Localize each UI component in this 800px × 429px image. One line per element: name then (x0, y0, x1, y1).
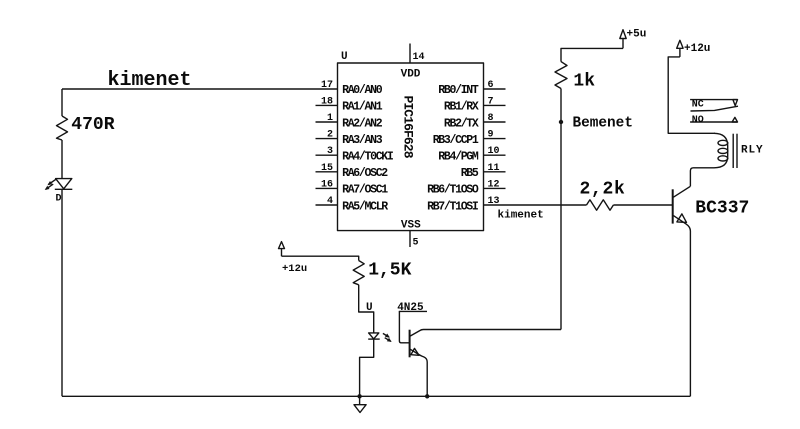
wire pin 13 to 2,2k (506, 204, 587, 206)
svg-text:RB7/T1OSI: RB7/T1OSI (427, 200, 479, 213)
pin 17 RA0/AN0 (321, 80, 383, 97)
svg-text:11: 11 (488, 163, 500, 174)
pin 12 RB6/T1OSO (427, 179, 505, 196)
pin 8 RB2/TX (444, 113, 506, 130)
svg-text:4: 4 (327, 196, 333, 207)
resistor 1k (555, 62, 595, 92)
svg-text:RB2/TX: RB2/TX (444, 117, 479, 130)
wire opto LED cathode down (360, 339, 374, 396)
wire Bemenet net down (560, 122, 562, 330)
relay RLY coil (690, 133, 763, 186)
svg-text:RA1/AN1: RA1/AN1 (342, 101, 383, 114)
svg-text:14: 14 (413, 52, 425, 63)
svg-text:2: 2 (327, 130, 333, 141)
svg-text:RA5/MCLR: RA5/MCLR (342, 200, 388, 213)
relay contact NO (690, 115, 737, 126)
wire +12v to relay coil (668, 57, 715, 133)
svg-text:U: U (341, 51, 348, 63)
svg-text:RA0/AN0: RA0/AN0 (342, 84, 383, 97)
pin 15 RA6/OSC2 (316, 163, 389, 180)
wire 1k to Bemenet junction (560, 89, 562, 123)
pin 5 VSS bottom stub (401, 220, 421, 249)
power +12v symbol left (279, 242, 308, 275)
optocoupler U 4N25 (366, 302, 427, 396)
svg-text:BC337: BC337 (695, 199, 749, 219)
svg-text:13: 13 (488, 196, 500, 207)
svg-text:2,2k: 2,2k (580, 180, 626, 200)
pin 13 RB7/T1OSI (427, 196, 505, 213)
wire +5v to 1k (561, 48, 623, 61)
pin 9 RB3/CCP1 (433, 130, 506, 147)
wire bottom ground rail (62, 395, 690, 397)
pin 6 RB0/INT (438, 80, 505, 97)
ground symbol (354, 396, 366, 412)
svg-text:+12u: +12u (282, 263, 307, 275)
resistor 2,2k (580, 180, 626, 211)
pin 1 RA2/AN2 (316, 113, 383, 130)
LED D (45, 179, 73, 205)
svg-text:7: 7 (488, 96, 494, 107)
svg-text:9: 9 (488, 130, 494, 141)
svg-text:+12u: +12u (684, 43, 710, 55)
svg-text:5: 5 (413, 238, 419, 249)
power +12v symbol right (677, 40, 711, 57)
pin 11 RB5 (461, 163, 506, 180)
wire Bemenet net to optocoupler collector (424, 329, 562, 331)
svg-text:RB1/RX: RB1/RX (444, 101, 479, 114)
wire 1,5K to opto LED anode (359, 285, 374, 333)
svg-text:RB4/PGM: RB4/PGM (438, 151, 479, 164)
svg-text:RA7/OSC1: RA7/OSC1 (342, 184, 388, 197)
relay contact lever (691, 106, 739, 111)
svg-text:15: 15 (321, 163, 333, 174)
svg-text:VDD: VDD (401, 68, 421, 80)
svg-text:NC: NC (692, 100, 704, 111)
transistor Q BC337 (673, 186, 750, 396)
resistor 1,5K (353, 261, 411, 285)
svg-text:6: 6 (488, 80, 494, 91)
IC U PIC16F628 body (338, 63, 484, 231)
svg-text:3: 3 (327, 146, 333, 157)
svg-text:18: 18 (321, 96, 333, 107)
svg-text:470R: 470R (71, 115, 114, 135)
svg-text:PIC16F628: PIC16F628 (400, 96, 415, 159)
svg-text:RB3/CCP1: RB3/CCP1 (433, 134, 479, 147)
wire LED D cathode down (61, 189, 63, 396)
wire kimenet down to R 470R (61, 89, 63, 116)
pin 14 VDD top stub (401, 44, 425, 81)
pin 3 RA4/T0CKI (316, 146, 394, 163)
svg-text:+5u: +5u (627, 29, 647, 41)
svg-text:RLY: RLY (741, 145, 764, 157)
pin 7 RB1/RX (444, 96, 506, 113)
svg-text:Bemenet: Bemenet (573, 116, 633, 132)
relay contact NC (690, 100, 737, 111)
svg-text:RA4/T0CKI: RA4/T0CKI (342, 151, 394, 164)
svg-text:16: 16 (321, 179, 333, 190)
wire +12v to 1,5K (282, 256, 359, 260)
svg-text:RB0/INT: RB0/INT (438, 84, 479, 97)
pin 18 RA1/AN1 (316, 96, 383, 113)
svg-text:12: 12 (488, 179, 500, 190)
svg-text:17: 17 (321, 80, 333, 91)
pin 4 RA5/MCLR (316, 196, 389, 213)
svg-text:NO: NO (692, 115, 704, 126)
junction opto cathode to ground rail (357, 394, 361, 398)
svg-text:RA6/OSC2: RA6/OSC2 (342, 167, 388, 180)
svg-text:kimenet: kimenet (498, 210, 544, 222)
svg-text:RA2/AN2: RA2/AN2 (342, 117, 383, 130)
svg-text:RB5: RB5 (461, 167, 479, 180)
wire kimenet net horizontal to pin 17 (62, 88, 338, 90)
svg-text:RB6/T1OSO: RB6/T1OSO (427, 184, 479, 197)
pin 2 RA3/AN3 (316, 130, 383, 147)
resistor 470R (57, 115, 115, 140)
svg-text:RA3/AN3: RA3/AN3 (342, 134, 383, 147)
svg-text:8: 8 (488, 113, 494, 124)
svg-text:kimenet: kimenet (108, 69, 192, 92)
wire 2,2k to BC337 base (613, 204, 672, 206)
junction opto emitter to ground rail (425, 394, 429, 398)
svg-text:VSS: VSS (401, 220, 421, 232)
svg-text:4N25: 4N25 (397, 302, 424, 314)
svg-text:1: 1 (327, 113, 333, 124)
svg-text:U: U (366, 302, 373, 314)
wire 470R to LED D (61, 140, 63, 179)
svg-text:1k: 1k (573, 71, 595, 91)
junction Bemenet node (559, 120, 563, 124)
svg-text:1,5K: 1,5K (368, 261, 411, 281)
power +5v symbol (620, 29, 647, 49)
pin 16 RA7/OSC1 (316, 179, 389, 196)
svg-text:D: D (56, 193, 62, 204)
svg-text:10: 10 (488, 146, 500, 157)
pin 10 RB4/PGM (438, 146, 505, 163)
